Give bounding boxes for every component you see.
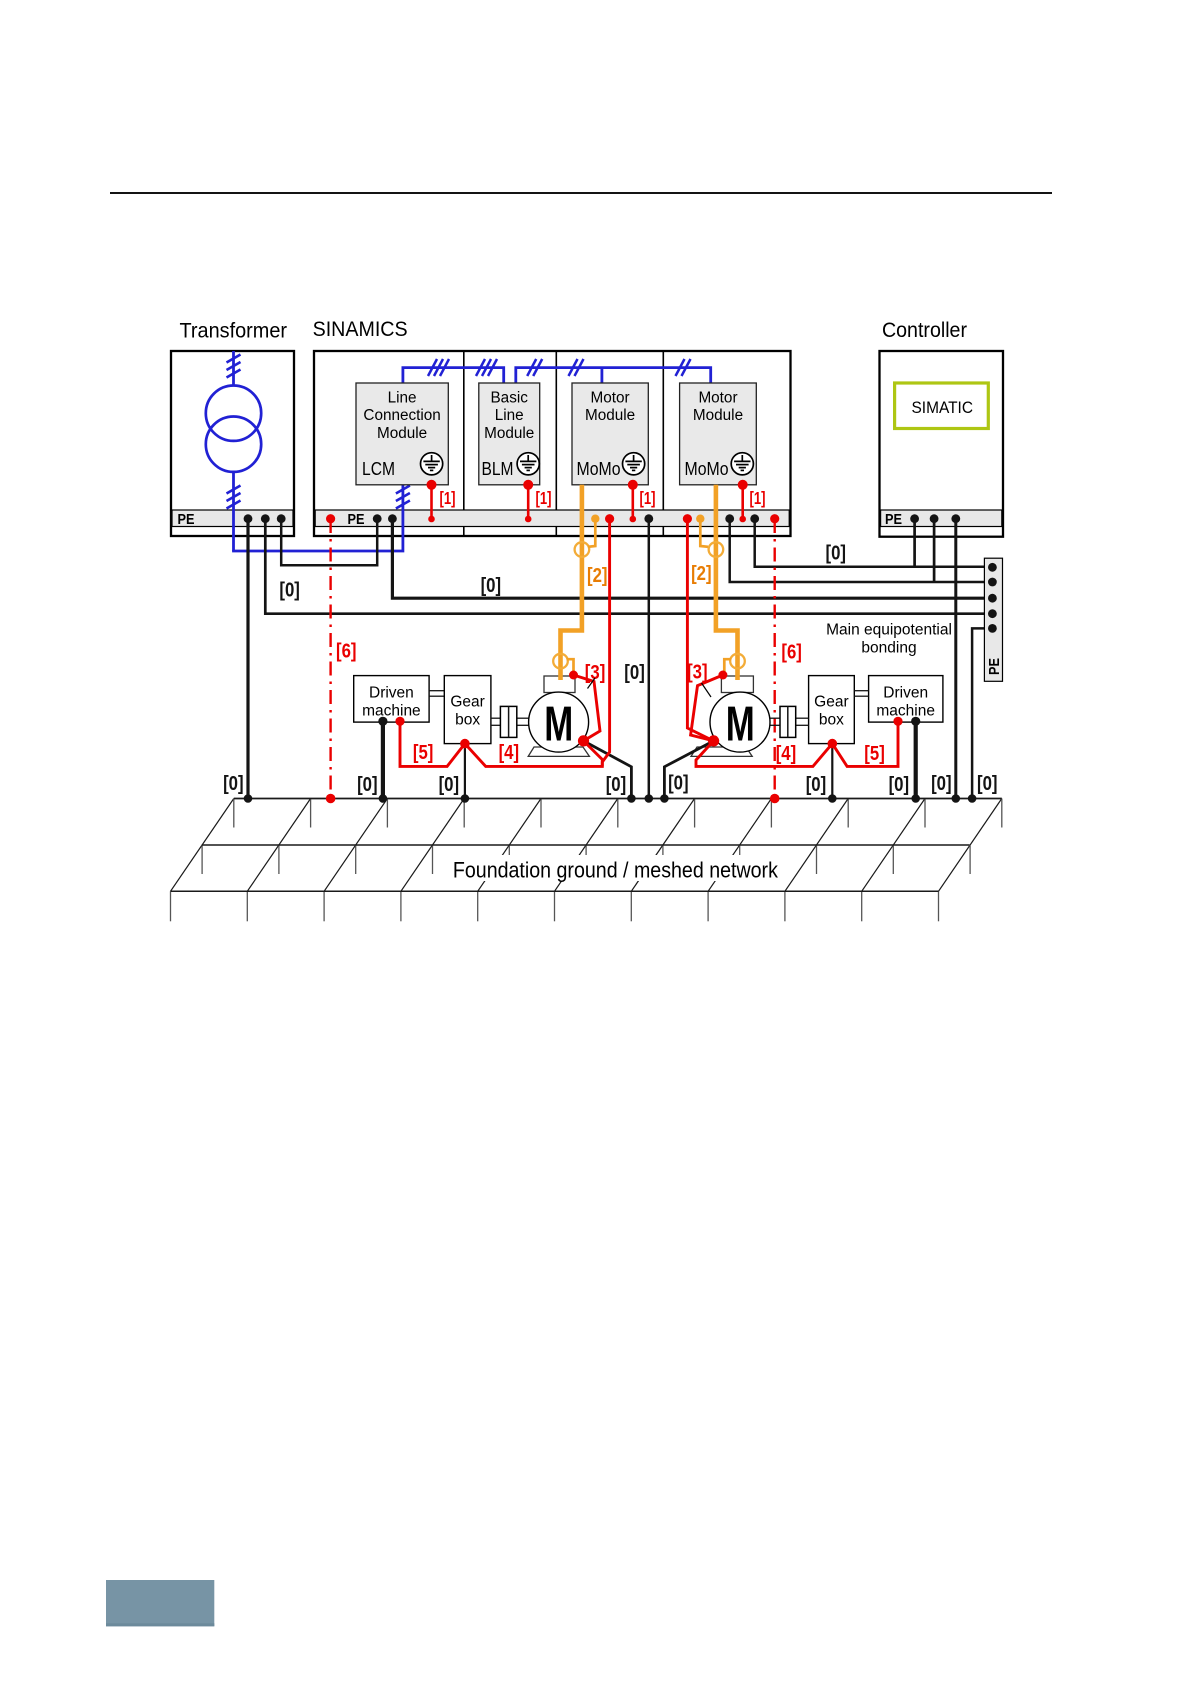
wire [0] motor 2 to foundation [664, 741, 713, 799]
label Foundation ground / meshed network [449, 855, 781, 881]
svg-text:M: M [544, 698, 573, 752]
svg-text:[5]: [5] [413, 742, 434, 764]
svg-text:[0]: [0] [481, 575, 502, 597]
svg-text:[1]: [1] [536, 488, 552, 508]
shield bond wire 2b [724, 659, 731, 673]
svg-text:box: box [819, 712, 844, 729]
svg-text:Basic: Basic [490, 390, 528, 407]
bottom-left slate rectangle [106, 1580, 214, 1626]
orange motor cable 2 [716, 485, 738, 680]
shield bond wire 1b [567, 659, 574, 673]
transformer symbol T1 [206, 351, 261, 551]
gear box 1 [444, 676, 491, 744]
coupling 2 [780, 706, 796, 737]
wire red PE conductor [1] of module 1 [430, 485, 433, 519]
wire red [3] motor 1 terminal to foot [574, 675, 601, 741]
svg-text:[2]: [2] [587, 565, 608, 587]
motor 1 terminal box [544, 676, 575, 693]
svg-text:SINAMICS: SINAMICS [313, 318, 408, 341]
wire [0] SINAMICS PE to foundation [648, 519, 651, 799]
module U4 Motor Module 2 [680, 383, 757, 485]
svg-text:[0]: [0] [826, 543, 847, 565]
svg-text:[0]: [0] [223, 773, 244, 795]
shield bond wire 2a [700, 521, 708, 547]
foundation junction dots [244, 794, 253, 803]
shield clamp 1b [553, 654, 568, 669]
svg-text:[5]: [5] [864, 743, 885, 765]
wire [0] motor 1 to foundation [584, 741, 632, 799]
wire controller PE drop 2 [933, 519, 936, 582]
svg-text:Gear: Gear [814, 694, 848, 711]
svg-text:Driven: Driven [883, 685, 928, 702]
wire red dash-dot [6] left [329, 519, 331, 799]
svg-text:[3]: [3] [687, 662, 708, 684]
svg-text:Foundation ground / meshed net: Foundation ground / meshed network [453, 858, 779, 883]
coupling 1 [500, 706, 516, 737]
svg-text:box: box [455, 712, 480, 729]
wire red [4] PE to motor 1 foot [602, 519, 609, 766]
wire red PE conductor [1] of module 3 [631, 485, 634, 519]
wire red [5]/[4] bonding chain group 2 [696, 721, 898, 766]
SINAMICS section divider 1 [463, 351, 465, 536]
svg-text:bonding: bonding [861, 640, 916, 657]
motor 1 base [528, 747, 589, 756]
wire red PE conductor [1] of module 4 [741, 485, 744, 519]
module U1 Line Connection Module [356, 383, 448, 485]
driven machine 2 box [869, 676, 943, 723]
svg-text:M: M [726, 698, 755, 752]
junction dots on PE bars [244, 514, 253, 523]
wire blue line bus [403, 368, 711, 384]
wire red dash-dot [6] right [774, 519, 776, 799]
svg-text:PE: PE [986, 658, 1003, 675]
transformer PE bar [172, 510, 293, 527]
svg-text:[0]: [0] [889, 774, 910, 796]
svg-text:Line: Line [495, 407, 524, 424]
svg-text:BLM: BLM [482, 459, 514, 479]
wire [0] transformer PE to foundation [246, 519, 249, 799]
shield clamp 2a [709, 542, 724, 557]
svg-text:[0]: [0] [806, 774, 827, 796]
svg-text:Connection: Connection [363, 407, 440, 424]
PE busbar (main equipotential bonding bar) [984, 558, 1002, 681]
svg-text:machine: machine [876, 703, 935, 720]
svg-text:SIMATIC: SIMATIC [912, 398, 974, 417]
svg-text:[1]: [1] [750, 488, 766, 508]
svg-text:PE: PE [348, 511, 365, 528]
shield clamp 1a [575, 542, 590, 557]
svg-text:Module: Module [585, 407, 635, 424]
wire [0] gear box 2 to foundation [831, 744, 833, 799]
svg-text:[0]: [0] [931, 773, 952, 795]
SINAMICS section divider 3 [662, 351, 664, 536]
orange dots on PE bar [591, 515, 599, 523]
svg-text:[3]: [3] [585, 662, 606, 684]
shield clamp 2b [730, 654, 745, 669]
svg-text:[0]: [0] [606, 774, 627, 796]
driven machine 1 box [354, 676, 429, 723]
svg-text:[0]: [0] [668, 773, 689, 795]
svg-text:[0]: [0] [439, 774, 460, 796]
SINAMICS PE bar [315, 510, 789, 527]
wire controller PE drop 1 [913, 519, 916, 567]
leader line for [3] motor 1 [588, 678, 596, 689]
svg-text:[0]: [0] [977, 773, 998, 795]
shaft gear box 2 to driven machine 2 [854, 690, 868, 692]
top horizontal rule [110, 192, 1052, 194]
svg-text:[1]: [1] [440, 488, 456, 508]
wire controller PE to foundation [954, 519, 957, 799]
svg-text:Motor: Motor [698, 390, 737, 407]
module U2 Basic Line Module [479, 383, 540, 485]
svg-text:[1]: [1] [640, 488, 656, 508]
svg-text:[4]: [4] [776, 743, 797, 765]
leader line for [3] motor 2 [702, 683, 712, 697]
svg-text:MoMo: MoMo [577, 459, 621, 479]
SIMATIC controller board [895, 383, 989, 429]
wire red [4] PE to motor 2 foot [687, 519, 713, 741]
svg-text:PE: PE [885, 511, 902, 528]
svg-text:machine: machine [362, 703, 421, 720]
wire busbar to foundation [972, 628, 992, 798]
svg-text:[0]: [0] [279, 580, 300, 602]
svg-text:[0]: [0] [357, 774, 378, 796]
svg-text:Module: Module [693, 407, 743, 424]
blue bus slash marks [428, 359, 691, 376]
svg-text:[0]: [0] [624, 662, 645, 684]
svg-text:Line: Line [388, 390, 417, 407]
motor 2 base [691, 747, 752, 756]
svg-text:PE: PE [178, 511, 195, 528]
controller PE bar [881, 510, 1002, 527]
svg-text:MoMo: MoMo [685, 459, 729, 479]
shaft motor 2 to gear box 2 [770, 717, 780, 719]
wire [0] SINAMICS PE right to busbar dot1 [755, 519, 993, 567]
red dots on PE bar [326, 514, 335, 523]
machine bonding dots [395, 717, 404, 726]
foundation ground mesh [171, 799, 234, 892]
shaft driven machine 1 to gear box 1 [429, 690, 444, 692]
wire [0] transformer PE to equipotential line 2 [265, 519, 992, 614]
svg-text:Driven: Driven [369, 685, 414, 702]
wire [0] driven machine 2 to foundation [914, 721, 918, 798]
gear box 2 [809, 676, 855, 744]
orange motor cable 1 [561, 485, 582, 680]
wire [0] SINAMICS PE right to busbar dot2 [730, 519, 993, 582]
motor 2 terminal box [721, 676, 753, 693]
SINAMICS cabinet box [314, 351, 791, 536]
wire [0] SINAMICS PE to equipotential line 1 [392, 519, 992, 598]
svg-text:[6]: [6] [336, 641, 357, 663]
svg-text:Gear: Gear [450, 694, 484, 711]
wire blue PE link transformer to LCM [234, 484, 403, 551]
module U3 Motor Module 1 [572, 383, 648, 485]
svg-text:Module: Module [484, 425, 534, 442]
motor M2 [710, 692, 770, 752]
svg-text:Module: Module [377, 425, 427, 442]
wire red [3] motor 2 terminal to foot [691, 675, 723, 741]
wire [0] bond transformer PE to SINAMICS PE [281, 519, 377, 565]
shield bond wire 1a [588, 521, 595, 547]
svg-text:LCM: LCM [362, 459, 395, 479]
wire [0] gear box 1 to foundation [464, 744, 466, 799]
wire red [5]/[4] bonding chain group 1 [400, 721, 602, 766]
wire [0] driven machine 1 to foundation [381, 721, 385, 798]
svg-text:Transformer: Transformer [180, 320, 288, 343]
svg-text:[2]: [2] [691, 563, 712, 585]
blue slashes on LCM drop [396, 486, 410, 509]
shaft gear box 1 to motor 1 [491, 717, 501, 719]
controller cabinet box [880, 351, 1004, 537]
svg-text:[4]: [4] [499, 742, 519, 764]
svg-text:Controller: Controller [882, 319, 967, 342]
svg-text:[6]: [6] [781, 642, 802, 664]
SINAMICS section divider 2 [555, 351, 557, 536]
motor M1 [529, 692, 589, 752]
transformer cabinet box [171, 351, 294, 536]
wire red PE conductor [1] of module 2 [527, 485, 530, 519]
svg-text:Main equipotential: Main equipotential [826, 622, 952, 639]
svg-text:Motor: Motor [591, 390, 630, 407]
